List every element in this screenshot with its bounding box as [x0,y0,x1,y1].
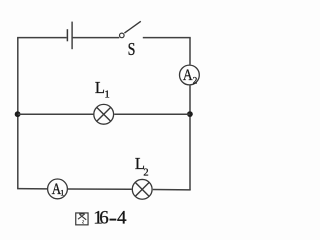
wire middle branch right [114,113,190,115]
svg-text:4: 4 [117,207,127,228]
svg-text:L: L [95,78,105,97]
svg-text:2: 2 [193,75,198,85]
wire battery to switch [72,37,119,39]
switch S [120,21,141,37]
wire bottom right segment [153,189,191,191]
svg-text:S: S [128,40,136,59]
caption text 16-4 [93,207,127,228]
caption character 图 [76,213,88,225]
svg-text:6: 6 [99,207,109,228]
wire left rail [17,38,19,189]
lamp L2 [132,179,152,199]
node junction dot left [15,111,21,117]
svg-text:1: 1 [60,189,64,198]
wire middle branch left [18,113,94,115]
ammeter A1 [48,179,68,199]
label L2 [135,154,149,179]
svg-text:2: 2 [143,167,148,178]
battery cell [67,22,72,50]
lamp L1 [94,104,114,124]
wire right rail upper [189,38,191,65]
wire right rail lower [189,85,191,189]
label L1 [95,78,110,101]
ammeter A2 [180,65,200,85]
wire switch to top right corner [143,37,191,39]
svg-text:1: 1 [105,90,110,101]
wire bottom left segment [17,188,47,190]
wire top left segment [17,37,67,39]
svg-text:A: A [183,67,193,84]
node junction dot right [187,111,193,117]
wire bottom middle segment [68,188,132,190]
